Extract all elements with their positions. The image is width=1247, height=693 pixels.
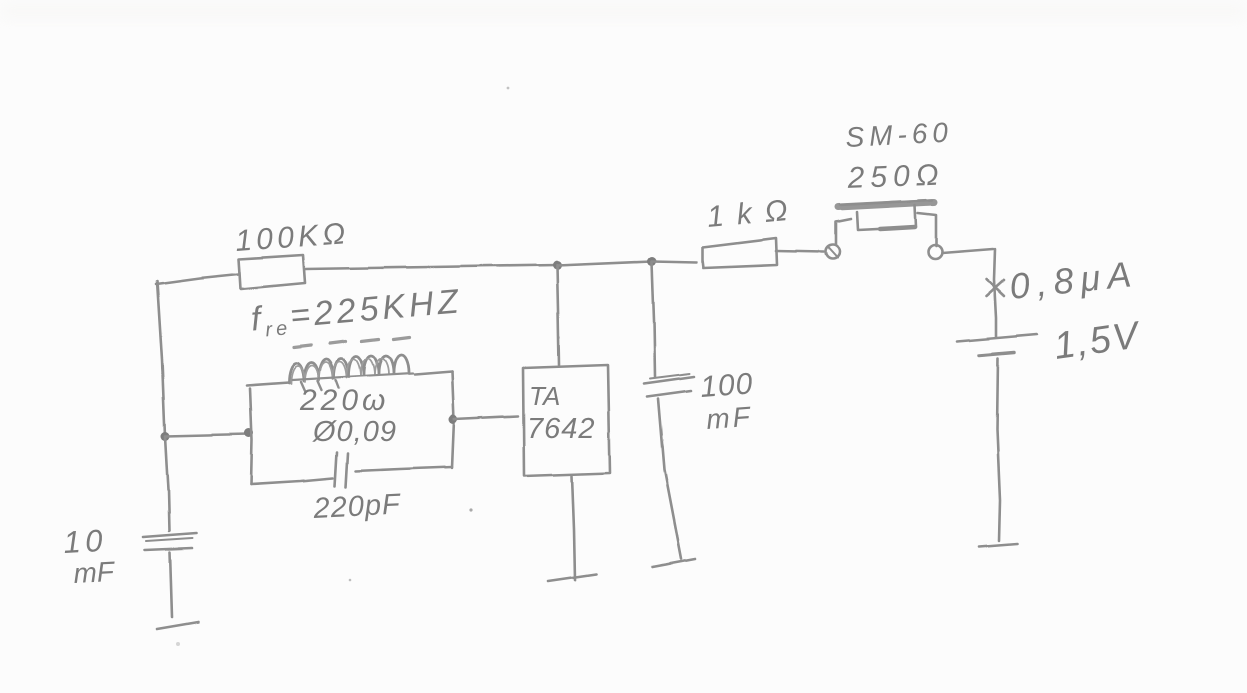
wire C3 down to ground <box>658 399 681 559</box>
capacitor C2 220pF right plate <box>346 453 348 487</box>
IC U1 TA7642 box <box>523 365 610 476</box>
core dashed line dash2 <box>330 341 346 343</box>
resistor R1 100KΩ <box>239 255 305 289</box>
node E junction dot <box>449 415 458 424</box>
battery B1 negative plate <box>979 352 1014 355</box>
tank box bottom-right segment <box>356 467 452 471</box>
earphone BF1 left lead <box>836 219 851 244</box>
tank box top-left shoulder <box>247 382 289 385</box>
capacitor C3 100mF top plate <box>644 377 694 384</box>
wire tank to IC U1 <box>454 416 518 419</box>
earphone BF1 inner bottom thick <box>880 227 915 229</box>
U1 ground bar <box>548 574 596 581</box>
svg-text:220pF: 220pF <box>312 488 403 525</box>
capacitor C3 100mF top plate echo <box>650 374 690 379</box>
earphone BF1 top bar <box>838 202 934 207</box>
core dashed line dash3 <box>362 339 379 341</box>
wire left vertical down <box>157 281 165 436</box>
core dashed line dash1 <box>294 345 311 347</box>
coil L1 baseline <box>292 373 413 380</box>
svg-text:TA: TA <box>529 381 560 411</box>
scan band top <box>0 2 1247 20</box>
capacitor C3 100mF bottom plate <box>647 391 691 397</box>
earphone BF1 inner rectangle <box>857 205 916 230</box>
bottom left terminal bar <box>157 622 198 629</box>
tank box right edge <box>452 371 454 468</box>
svg-text:100: 100 <box>699 367 754 404</box>
svg-text:SM-60: SM-60 <box>845 116 954 153</box>
bottom right terminal bar <box>979 544 1017 547</box>
node B junction dot <box>648 257 657 266</box>
wire R1 to node A <box>305 265 557 269</box>
tank box top-right shoulder <box>415 371 452 374</box>
node A junction dot <box>553 261 562 270</box>
coil L1 loops <box>289 355 409 383</box>
svg-text:mF: mF <box>73 556 117 589</box>
svg-text:250Ω: 250Ω <box>846 159 945 195</box>
left terminal slash <box>828 247 838 258</box>
wire node C to tank box <box>165 434 249 436</box>
wire C1 to bottom bar <box>170 552 172 617</box>
wire node A to node B <box>557 261 652 265</box>
current direction x mark <box>986 279 1004 296</box>
svg-text:Ø0,09: Ø0,09 <box>312 416 397 448</box>
wire R2 to left phone terminal <box>776 251 824 252</box>
wire node A down to U1 <box>557 266 559 365</box>
C3 ground bar <box>652 559 695 567</box>
capacitor C1 10mF top plate <box>143 533 196 537</box>
capacitor C1 10mF bottom plate <box>145 548 192 550</box>
wire node B down to C3 <box>652 262 655 377</box>
wire battery to bottom terminal <box>997 358 1000 541</box>
tank box left edge <box>250 388 252 484</box>
right phone terminal circle <box>928 245 942 259</box>
wire down to battery <box>994 249 996 336</box>
coil L1 loops echo <box>291 359 389 384</box>
svg-text:10: 10 <box>63 523 108 560</box>
svg-text:220ω: 220ω <box>299 384 389 417</box>
earphone BF1 right lead <box>918 213 936 246</box>
battery B1 positive plate <box>957 334 1037 341</box>
paper speck 1 <box>469 508 472 511</box>
svg-text:7642: 7642 <box>527 413 596 445</box>
paper speck 4 <box>176 642 180 646</box>
paper speck 2 <box>349 579 352 582</box>
paper speck 3 <box>507 87 510 90</box>
resistor R2 1kΩ <box>703 238 777 268</box>
capacitor C1 10mF top plate echo <box>146 538 192 541</box>
wire node C down to C1 <box>165 436 169 531</box>
node C junction dot <box>161 432 170 441</box>
earphone BF1 top bar darker stroke <box>840 200 932 205</box>
svg-text:mF: mF <box>705 401 753 435</box>
wire right terminal to corner <box>942 249 993 253</box>
left phone terminal circle <box>826 245 840 259</box>
tank box bottom-left segment <box>251 478 333 484</box>
wire U1 down to ground <box>572 476 575 580</box>
coil L1 left tails <box>301 380 339 391</box>
node D junction dot <box>245 429 254 438</box>
core dashed line dash4 <box>394 337 410 339</box>
wire top-left horizontal <box>156 274 239 284</box>
wire node B to R2 <box>652 261 697 262</box>
capacitor C2 220pF left plate <box>335 452 337 486</box>
